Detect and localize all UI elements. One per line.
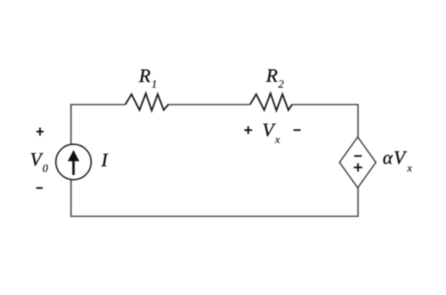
current source label I	[101, 154, 108, 166]
current source I circle	[56, 144, 91, 179]
resistor R2 label subscript 2	[278, 80, 283, 87]
dependent source diamond	[340, 137, 376, 188]
label alpha of dependent source	[383, 155, 393, 164]
plus sign of Vx label	[244, 126, 252, 134]
label V0 letter V	[31, 153, 43, 166]
resistor R2 zigzag	[250, 93, 292, 110]
label subscript x of dependent source	[407, 166, 412, 171]
resistor R1 zigzag	[125, 93, 168, 110]
resistor R1 label subscript 1	[152, 80, 156, 87]
current source arrow shaft	[72, 159, 74, 176]
wire bottom horizontal segment	[70, 215, 358, 217]
minus sign below V0	[36, 187, 43, 189]
label Vx subscript x	[275, 138, 280, 143]
minus sign of Vx label	[294, 129, 301, 131]
wire left vertical upper segment	[70, 104, 72, 145]
label V0 subscript 0	[43, 165, 48, 172]
label V of dependent source	[395, 151, 407, 164]
wire right vertical lower segment	[357, 187, 359, 217]
current source arrow head	[68, 150, 80, 161]
plus sign above V0	[36, 128, 43, 136]
wire left vertical lower segment	[70, 179, 72, 217]
wire top-left horizontal segment	[70, 104, 125, 106]
wire top-right horizontal segment	[292, 104, 358, 106]
minus sign inside diamond	[354, 155, 362, 157]
label Vx letter V	[263, 124, 275, 137]
plus sign inside diamond	[354, 163, 362, 171]
wire right vertical upper segment	[357, 104, 359, 138]
resistor R1 label R	[139, 70, 150, 82]
resistor R2 label R	[266, 69, 277, 81]
wire top-middle horizontal segment	[168, 104, 250, 106]
